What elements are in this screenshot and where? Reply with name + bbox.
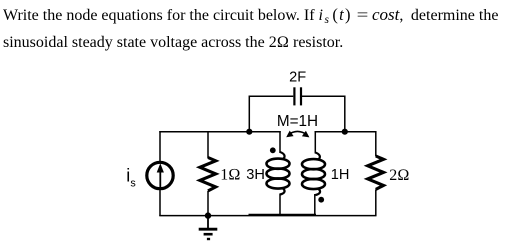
ground — [199, 216, 218, 239]
dot: 1H polarity mark — [318, 197, 324, 203]
svg-text:1H: 1H — [331, 167, 350, 183]
coupling arrow (mutual inductance) — [286, 131, 309, 138]
svg-text:3H: 3H — [246, 167, 265, 183]
node dot: cap right junction — [342, 129, 348, 135]
svg-text:s: s — [130, 178, 136, 190]
inductor L1 3H — [267, 131, 290, 216]
svg-text:M=1H: M=1H — [277, 113, 318, 130]
label is (source current) — [126, 166, 136, 190]
wire: top-right node (1H top to 2 ohm top) — [315, 131, 377, 133]
wire: capacitor loop left riser — [249, 96, 293, 132]
wire: top-left node (source top to 3H top) — [159, 131, 280, 133]
wire: capacitor loop right riser — [302, 96, 345, 132]
node dot: cap left junction — [246, 129, 252, 135]
current source IS — [147, 162, 173, 188]
capacitor C1 2F — [294, 87, 301, 105]
wire: bottom ground rail — [159, 215, 376, 217]
wire: left branch vertical — [159, 131, 161, 216]
problem statement text — [3, 1, 527, 56]
svg-text:2Ω: 2Ω — [389, 167, 409, 184]
svg-text:1Ω: 1Ω — [220, 166, 240, 183]
resistor R2 2ohm — [368, 131, 384, 216]
resistor R1 1ohm — [200, 131, 216, 216]
wire: bottom rail overlap segment between coupled-coil leads — [249, 214, 317, 216]
inductor L2 1H — [302, 131, 325, 216]
dot: 3H polarity mark — [270, 147, 276, 153]
node dot: ground junction — [205, 212, 211, 218]
svg-text:2F: 2F — [289, 70, 306, 86]
